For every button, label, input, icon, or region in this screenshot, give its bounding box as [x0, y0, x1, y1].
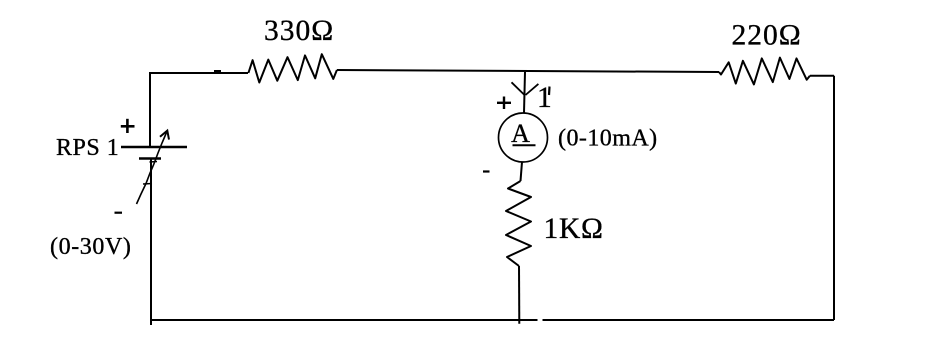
wire ammeter to R3: [521, 162, 523, 181]
wire top-right segment: [810, 75, 834, 77]
battery RPS1 variable arrow shaft: [137, 133, 167, 205]
battery plus sign: [121, 119, 135, 133]
battery arrow tick 1: [143, 183, 152, 186]
wire R3 to bottom node: [518, 266, 520, 324]
ammeter A underline: [513, 144, 536, 146]
current arrow head on ammeter wire: [512, 82, 539, 95]
ammeter minus sign: [483, 170, 490, 172]
ammeter U1 circle: [499, 113, 548, 162]
svg-text:(0-30V): (0-30V): [50, 234, 132, 260]
resistor R2 220ohm zigzag: [719, 58, 810, 85]
resistor R1 330ohm zigzag: [248, 54, 337, 82]
label I' apostrophe tick: [548, 87, 551, 96]
battery minus sign: [115, 212, 123, 214]
battery arrow head: [160, 131, 169, 140]
battery arrow tick 2: [150, 161, 158, 164]
svg-text:(0-10mA): (0-10mA): [558, 126, 658, 152]
svg-text:220Ω: 220Ω: [732, 20, 802, 52]
wire left vertical lower: [150, 159, 152, 325]
wire bottom left segment: [150, 319, 538, 321]
wire bottom right segment: [543, 319, 835, 321]
wire right vertical: [833, 76, 835, 320]
ammeter plus sign: [497, 97, 511, 110]
svg-text:330Ω: 330Ω: [264, 15, 334, 47]
battery RPS1 long plate: [121, 146, 187, 148]
wire top-left segment: [150, 72, 248, 74]
svg-text:1: 1: [537, 82, 552, 114]
wire left vertical upper: [149, 72, 151, 147]
resistor R3 1Kohm vertical zigzag: [506, 181, 531, 266]
wire ammeter drop: [524, 72, 525, 113]
svg-text:A: A: [511, 119, 530, 148]
svg-text:RPS 1: RPS 1: [56, 135, 119, 161]
node tick on top wire: [214, 70, 221, 73]
battery RPS1 short plate: [139, 157, 161, 159]
wire top-middle segment: [337, 70, 719, 72]
svg-text:1KΩ: 1KΩ: [544, 213, 604, 245]
